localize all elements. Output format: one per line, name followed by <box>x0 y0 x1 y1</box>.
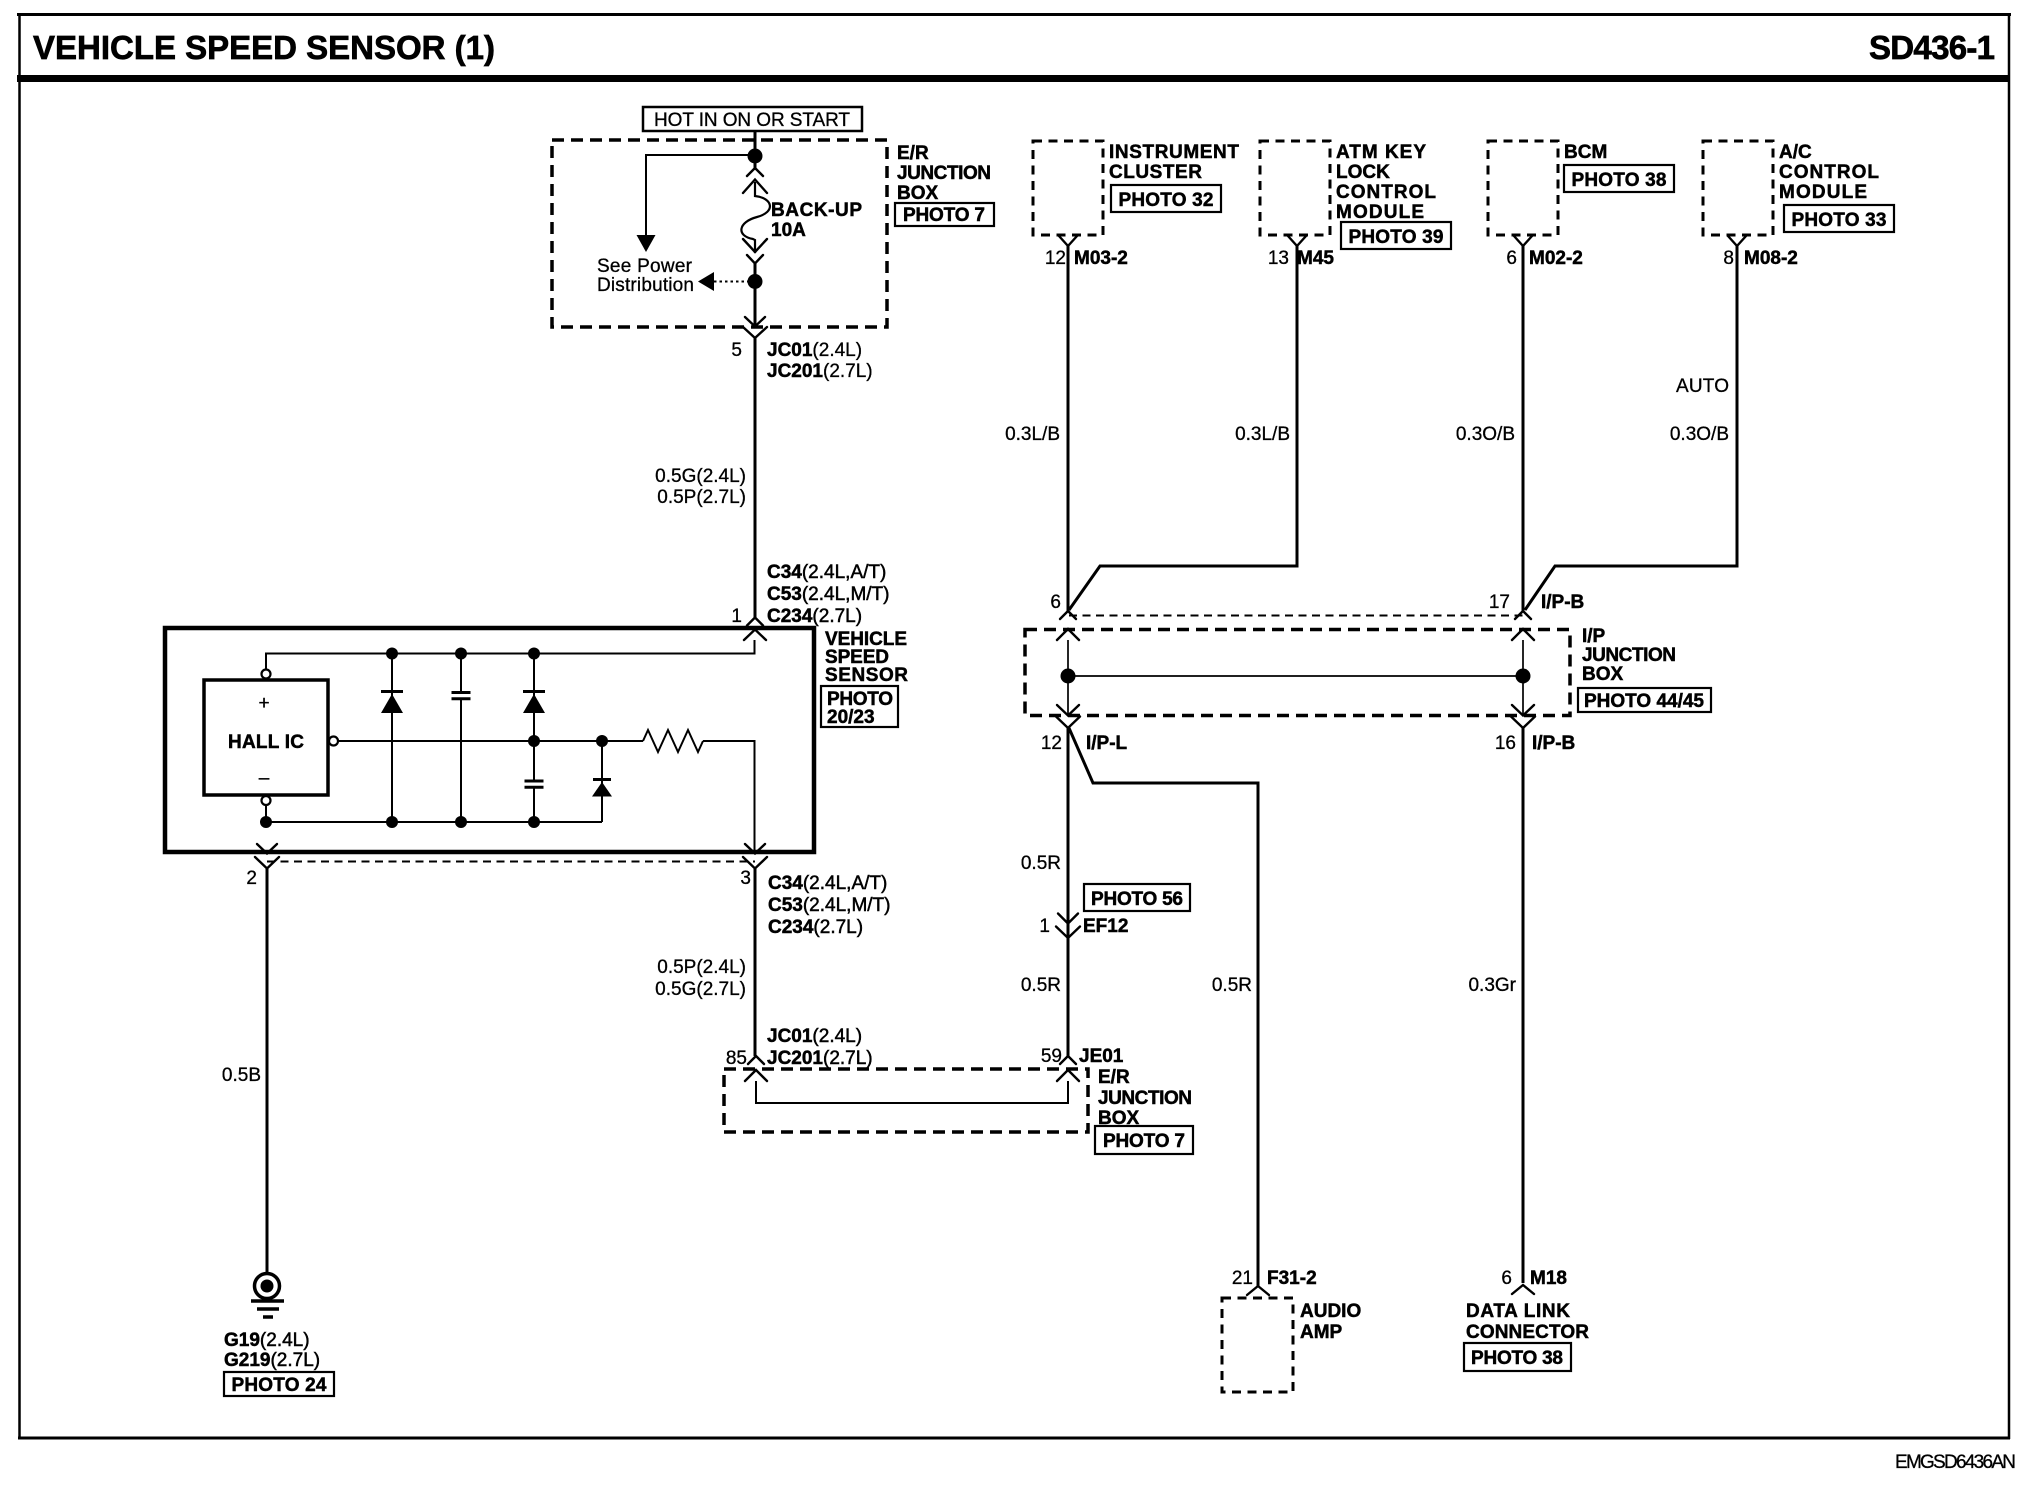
wire sensor pin 2 to ground <box>266 868 269 1272</box>
svg-text:6: 6 <box>1050 592 1061 613</box>
svg-text:0.5P(2.7L): 0.5P(2.7L) <box>657 487 746 508</box>
svg-text:LOCK: LOCK <box>1336 162 1390 183</box>
junction node middle wire 2 <box>596 735 608 747</box>
capacitor C1 <box>452 693 471 699</box>
svg-text:12: 12 <box>1045 248 1066 269</box>
svg-text:PHOTO 56: PHOTO 56 <box>1091 889 1183 910</box>
svg-text:59: 59 <box>1041 1046 1062 1067</box>
svg-text:M18: M18 <box>1530 1268 1567 1289</box>
svg-text:G19(2.4L): G19(2.4L) <box>224 1330 310 1351</box>
ground G19/G219 <box>251 1274 284 1318</box>
label See Power Distribution <box>597 256 694 296</box>
svg-text:C234(2.7L): C234(2.7L) <box>767 606 862 627</box>
svg-text:JE01: JE01 <box>1079 1046 1124 1067</box>
svg-text:BCM: BCM <box>1564 142 1607 163</box>
pin 59 entry chevrons <box>1057 1056 1079 1081</box>
frame left border <box>18 14 21 1439</box>
sensor pin 2 exit chevrons <box>255 844 279 869</box>
sensor middle internal wire <box>338 740 643 742</box>
svg-text:PHOTO 38: PHOTO 38 <box>1471 1348 1563 1369</box>
svg-text:SD436-1: SD436-1 <box>1869 29 1995 66</box>
svg-text:JC201(2.7L): JC201(2.7L) <box>767 1048 873 1069</box>
pin 17 label I/P-B <box>1489 592 1584 613</box>
svg-text:8: 8 <box>1723 248 1734 269</box>
svg-text:0.3L/B: 0.3L/B <box>1235 424 1290 445</box>
INSTRUMENT CLUSTER connector box (dashed) <box>1033 141 1103 235</box>
svg-text:I/P: I/P <box>1582 626 1606 647</box>
PHOTO 56 box <box>1084 884 1190 911</box>
svg-text:VEHICLE SPEED SENSOR (1): VEHICLE SPEED SENSOR (1) <box>33 29 495 66</box>
svg-text:CLUSTER: CLUSTER <box>1109 162 1202 183</box>
svg-text:C34(2.4L,A/T): C34(2.4L,A/T) <box>768 873 887 894</box>
A/C CONTROL MODULE connector box (dashed) <box>1703 141 1773 235</box>
arrow left (to See Power Distribution) <box>698 272 714 291</box>
HALL IC right terminal <box>329 737 338 746</box>
pin 6 M02-2 chevron <box>1514 236 1532 246</box>
svg-text:M02-2: M02-2 <box>1529 248 1583 269</box>
ground labels G19(2.4L) G219(2.7L) <box>224 1330 320 1371</box>
svg-text:I/P-L: I/P-L <box>1086 733 1128 754</box>
svg-text:JC201(2.7L): JC201(2.7L) <box>767 361 873 382</box>
svg-text:16: 16 <box>1495 733 1516 754</box>
EF12 connector chevrons <box>1056 914 1080 939</box>
svg-text:0.3L/B: 0.3L/B <box>1005 424 1060 445</box>
PHOTO 38 box (BCM) <box>1564 165 1674 192</box>
wire fuse to pin 5 <box>754 263 757 326</box>
svg-text:MODULE: MODULE <box>1336 202 1424 223</box>
pin 85 labels JC01(2.4L) JC201(2.7L) <box>726 1026 873 1069</box>
svg-text:JUNCTION: JUNCTION <box>897 163 991 184</box>
junction node bottom wire 3 <box>528 816 540 828</box>
connector dashed line pins 6-17 <box>1069 615 1523 617</box>
svg-text:See Power: See Power <box>597 256 693 277</box>
svg-text:DATA LINK: DATA LINK <box>1466 1301 1570 1322</box>
pin 12 label I/P-L <box>1041 733 1128 754</box>
svg-text:BOX: BOX <box>897 183 939 204</box>
diode D1 column wire <box>391 654 393 823</box>
pin label 6 M02-2 <box>1506 248 1582 269</box>
fuse BACK-UP 10A <box>741 168 770 264</box>
svg-text:+: + <box>258 693 269 714</box>
svg-text:PHOTO 44/45: PHOTO 44/45 <box>1584 691 1704 712</box>
diode D2 column wire <box>533 654 535 781</box>
wire sensor pin 3 to pin 85 <box>754 868 757 1056</box>
junction node bottom wire 1 <box>386 816 398 828</box>
junction node (top) <box>748 149 763 164</box>
wire M03-2 to I/P pin 6 <box>1067 246 1070 611</box>
sensor bottom internal wire <box>266 805 602 822</box>
capacitor C2 <box>525 781 544 787</box>
svg-text:E/R: E/R <box>897 143 929 164</box>
capacitor C1 column wire <box>460 654 462 823</box>
PHOTO 20/23 box <box>821 686 898 728</box>
I/P junction box (dashed) <box>1025 630 1570 716</box>
svg-text:JC01(2.4L): JC01(2.4L) <box>767 340 862 361</box>
junction node I/P left <box>1061 669 1076 684</box>
svg-text:PHOTO 32: PHOTO 32 <box>1119 190 1214 211</box>
label A/C CONTROL MODULE <box>1779 142 1879 203</box>
wire M02-2 to I/P pin 17 <box>1522 246 1525 611</box>
pin 16 exit chevrons <box>1511 705 1535 728</box>
svg-text:17: 17 <box>1489 592 1510 613</box>
svg-text:BOX: BOX <box>1582 664 1624 685</box>
svg-text:0.5R: 0.5R <box>1212 975 1252 996</box>
svg-text:–: – <box>259 768 270 789</box>
svg-text:85: 85 <box>726 1048 747 1069</box>
I/P internal wire right <box>1522 640 1524 715</box>
frame bottom border <box>18 1437 2010 1440</box>
label 1 EF12 <box>1039 916 1128 937</box>
pin 85 entry chevrons <box>745 1056 767 1081</box>
svg-text:AMP: AMP <box>1300 1322 1343 1343</box>
svg-text:AUDIO: AUDIO <box>1300 1301 1361 1322</box>
svg-text:ATM KEY: ATM KEY <box>1336 142 1426 163</box>
junction node I/P right <box>1516 669 1531 684</box>
pin 5 connector chevrons <box>743 317 767 338</box>
sensor pin 1 entry chevrons <box>744 618 766 641</box>
label AUDIO AMP <box>1300 1301 1361 1343</box>
PHOTO 33 box <box>1784 205 1894 232</box>
pin 6 M18 label <box>1501 1268 1567 1289</box>
wire branch to See Power Distribution <box>646 155 755 235</box>
svg-text:F31-2: F31-2 <box>1267 1268 1317 1289</box>
label DATA LINK CONNECTOR <box>1466 1301 1589 1343</box>
junction node middle wire 1 <box>528 735 540 747</box>
svg-text:M45: M45 <box>1297 248 1334 269</box>
svg-text:0.3Gr: 0.3Gr <box>1468 975 1516 996</box>
svg-text:12: 12 <box>1041 733 1062 754</box>
junction node top wire 2 <box>455 648 467 660</box>
pin 59 label JE01 <box>1041 1046 1124 1067</box>
pin 21 F31-2 terminal chevron <box>1247 1286 1269 1295</box>
dotted link to junction node <box>714 281 748 283</box>
wire from HOT IN to fuse <box>754 131 757 170</box>
E/R junction box (top, dashed) <box>552 140 887 327</box>
sensor top internal wire <box>266 640 755 670</box>
svg-text:0.5R: 0.5R <box>1021 975 1061 996</box>
pin 13 M45 chevron <box>1288 236 1306 246</box>
pin 12 M03-2 chevron <box>1059 236 1077 246</box>
svg-text:PHOTO 39: PHOTO 39 <box>1349 227 1444 248</box>
wire pin 16 to data link M18 <box>1522 727 1525 1283</box>
svg-text:CONNECTOR: CONNECTOR <box>1466 1322 1589 1343</box>
wire label 0.5G(2.4L) 0.5P(2.7L) <box>655 466 746 508</box>
svg-text:JC01(2.4L): JC01(2.4L) <box>767 1026 862 1047</box>
AUDIO AMP box (dashed) <box>1222 1298 1293 1392</box>
I/P internal bus wire <box>1068 675 1523 677</box>
frame right border <box>2008 14 2011 1439</box>
svg-text:AUTO: AUTO <box>1676 376 1729 397</box>
svg-text:C234(2.7L): C234(2.7L) <box>768 917 863 938</box>
svg-text:3: 3 <box>740 868 751 889</box>
svg-text:2: 2 <box>246 868 257 889</box>
PHOTO 44/45 box <box>1578 688 1711 712</box>
svg-text:PHOTO 24: PHOTO 24 <box>232 1375 327 1396</box>
junction node (lower) <box>748 274 763 289</box>
svg-text:0.5G(2.7L): 0.5G(2.7L) <box>655 979 746 1000</box>
pin 12 exit chevrons <box>1056 705 1080 728</box>
wire M08-2 to I/P pin 17 <box>1525 246 1737 610</box>
label HALL IC <box>228 693 304 789</box>
HALL IC top terminal <box>262 670 271 679</box>
label INSTRUMENT CLUSTER <box>1109 142 1239 183</box>
svg-text:PHOTO 7: PHOTO 7 <box>903 205 985 226</box>
frame top rule <box>17 13 2011 16</box>
svg-text:5: 5 <box>731 340 742 361</box>
I/P internal wire left <box>1067 640 1069 715</box>
svg-text:20/23: 20/23 <box>827 707 875 728</box>
branch wire pin 12 to audio amp <box>1069 728 1258 1286</box>
svg-text:HALL IC: HALL IC <box>228 732 304 753</box>
svg-text:JUNCTION: JUNCTION <box>1098 1088 1192 1109</box>
svg-text:PHOTO 33: PHOTO 33 <box>1792 210 1887 231</box>
resistor R1 <box>643 730 703 752</box>
svg-text:0.5R: 0.5R <box>1021 853 1061 874</box>
PHOTO 7 box (top) <box>895 203 994 226</box>
wire pin 12 to EF12 to JE01 <box>1067 727 1070 1056</box>
label BACK-UP 10A <box>771 200 862 241</box>
junction node top wire 3 <box>528 648 540 660</box>
pin 21 label F31-2 <box>1232 1268 1317 1289</box>
svg-text:C53(2.4L,M/T): C53(2.4L,M/T) <box>768 895 890 916</box>
pin 3 labels C34 C53 C234 <box>768 873 890 938</box>
junction node top wire 1 <box>386 648 398 660</box>
svg-text:10A: 10A <box>771 220 806 241</box>
pin 8 M08-2 chevron <box>1728 236 1746 246</box>
ATM KEY LOCK CONTROL MODULE connector box (dashed) <box>1260 141 1330 235</box>
pin label 12 M03-2 <box>1045 248 1128 269</box>
diode D3 column wire <box>601 741 603 822</box>
svg-text:BACK-UP: BACK-UP <box>771 200 862 221</box>
svg-text:EMGSD6436AN: EMGSD6436AN <box>1895 1452 2016 1473</box>
label E/R JUNCTION BOX <box>897 143 991 204</box>
svg-text:6: 6 <box>1506 248 1517 269</box>
capacitor C2 lower wire <box>533 789 535 823</box>
E/R bottom internal wire <box>756 1081 1068 1103</box>
header thick rule <box>17 75 2009 82</box>
svg-text:M08-2: M08-2 <box>1744 248 1798 269</box>
junction node bottom wire 0 <box>260 816 272 828</box>
label E/R JUNCTION BOX (bottom) <box>1098 1067 1192 1129</box>
HOT IN ON OR START box <box>643 107 862 131</box>
svg-text:6: 6 <box>1501 1268 1512 1289</box>
svg-text:C53(2.4L,M/T): C53(2.4L,M/T) <box>767 584 889 605</box>
svg-text:C34(2.4L,A/T): C34(2.4L,A/T) <box>767 562 886 583</box>
vehicle speed sensor box <box>165 628 814 852</box>
svg-text:A/C: A/C <box>1779 142 1812 163</box>
svg-text:INSTRUMENT: INSTRUMENT <box>1109 142 1239 163</box>
sensor pin 3 exit chevrons <box>743 844 767 869</box>
PHOTO 24 box <box>224 1372 334 1396</box>
svg-text:M03-2: M03-2 <box>1074 248 1128 269</box>
pin label 1 C34 C53 C234 <box>731 562 889 627</box>
E/R junction box (bottom, dashed) <box>724 1069 1088 1132</box>
svg-text:21: 21 <box>1232 1268 1253 1289</box>
wire M45 to I/P pin 6 <box>1069 246 1297 610</box>
wire label 0.5P(2.4L) 0.5G(2.7L) <box>655 957 746 1000</box>
svg-text:JUNCTION: JUNCTION <box>1582 645 1676 666</box>
label VEHICLE SPEED SENSOR <box>825 629 908 686</box>
connector dashed line pins 2-3 <box>267 861 755 863</box>
svg-text:MODULE: MODULE <box>1779 182 1867 203</box>
label ATM KEY LOCK CONTROL MODULE <box>1336 142 1436 223</box>
svg-text:Distribution: Distribution <box>597 275 694 296</box>
PHOTO 32 box <box>1111 185 1221 212</box>
svg-text:1: 1 <box>1039 916 1050 937</box>
svg-text:PHOTO 7: PHOTO 7 <box>1103 1131 1185 1152</box>
diode D2 <box>523 692 545 714</box>
svg-text:I/P-B: I/P-B <box>1541 592 1584 613</box>
PHOTO 7 box (bottom) <box>1095 1126 1193 1154</box>
BCM connector box (dashed) <box>1488 141 1558 235</box>
PHOTO 39 box <box>1341 222 1451 249</box>
svg-text:I/P-B: I/P-B <box>1532 733 1575 754</box>
svg-text:0.3O/B: 0.3O/B <box>1670 424 1729 445</box>
svg-text:CONTROL: CONTROL <box>1779 162 1879 183</box>
label I/P JUNCTION BOX <box>1582 626 1676 685</box>
junction node bottom wire 2 <box>455 816 467 828</box>
PHOTO 38 box (data link) <box>1464 1343 1571 1371</box>
svg-text:1: 1 <box>731 606 742 627</box>
svg-text:SENSOR: SENSOR <box>825 665 908 686</box>
HALL IC bottom terminal <box>262 796 271 805</box>
diode D3 <box>592 780 612 797</box>
svg-text:CONTROL: CONTROL <box>1336 182 1436 203</box>
pin 17 entry chevrons <box>1512 611 1534 640</box>
pin 6 M18 terminal chevron <box>1512 1285 1534 1294</box>
svg-text:0.5B: 0.5B <box>222 1065 261 1086</box>
svg-text:E/R: E/R <box>1098 1067 1130 1088</box>
pin label 13 M45 <box>1268 248 1335 269</box>
pin label 8 M08-2 <box>1723 248 1797 269</box>
svg-text:EF12: EF12 <box>1083 916 1128 937</box>
svg-text:G219(2.7L): G219(2.7L) <box>224 1350 320 1371</box>
diode D1 <box>381 692 403 714</box>
wire pin5 to sensor pin1 <box>754 338 757 618</box>
wire resistor to pin 3 <box>703 741 755 851</box>
svg-text:0.5G(2.4L): 0.5G(2.4L) <box>655 466 746 487</box>
pin label 5 JC01(2.4L) JC201(2.7L) <box>731 340 872 382</box>
pin 6 entry chevrons <box>1057 611 1079 640</box>
arrow down (See Power Distribution) <box>637 235 656 252</box>
svg-text:0.5P(2.4L): 0.5P(2.4L) <box>657 957 746 978</box>
svg-text:PHOTO 38: PHOTO 38 <box>1572 170 1667 191</box>
HALL IC box <box>204 680 328 795</box>
svg-text:13: 13 <box>1268 248 1289 269</box>
svg-text:0.3O/B: 0.3O/B <box>1456 424 1515 445</box>
svg-text:HOT IN ON OR START: HOT IN ON OR START <box>654 110 850 131</box>
pin 16 label I/P-B <box>1495 733 1575 754</box>
